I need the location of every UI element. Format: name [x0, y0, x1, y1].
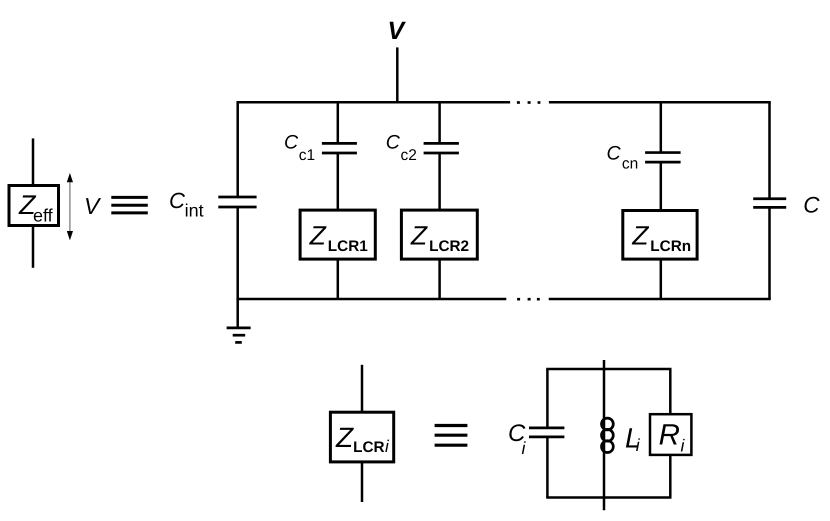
wire LCR tank bottom rail [546, 496, 671, 499]
wire branch1 above C_c1 [337, 102, 340, 143]
voltage arrow V (double headed) [67, 173, 73, 241]
wire Z_eff top lead [32, 138, 35, 185]
wire branch-n C_cn to Z_LCRn [660, 162, 663, 210]
junction dots bottom rail (ellipsis) [517, 298, 520, 301]
equivalence symbol bottom [435, 426, 468, 446]
wire branch2 C_c2 to Z_LCR2 [438, 153, 441, 210]
svg-text:cn: cn [622, 156, 638, 173]
svg-text:LCR1: LCR1 [328, 238, 368, 255]
wire tank right branch below R_i [669, 455, 672, 498]
wire tank left branch below C_i [546, 437, 549, 498]
svg-text:Z: Z [335, 422, 354, 453]
svg-text:R: R [659, 419, 680, 452]
capacitor C plates [753, 199, 786, 208]
junction dots top rail (ellipsis) [517, 101, 540, 300]
svg-text:eff: eff [33, 206, 54, 226]
svg-text:i: i [385, 437, 390, 456]
wire branch-n above C_cn [660, 102, 663, 152]
svg-text:i: i [522, 438, 527, 458]
impedance box Z_LCR1 [300, 210, 375, 259]
wire right branch below C [768, 207, 771, 299]
svg-text:Z: Z [631, 220, 649, 250]
svg-text:C: C [169, 188, 185, 213]
wire ground stem [236, 299, 239, 328]
svg-text:C: C [284, 132, 299, 154]
wire tank right branch above R_i [669, 369, 672, 414]
svg-text:Z: Z [309, 220, 327, 250]
svg-text:LCR2: LCR2 [429, 238, 469, 255]
wire LCR tank top rail [546, 368, 671, 371]
equivalence symbol left [111, 197, 148, 213]
capacitor C_i plates [529, 428, 564, 437]
wire left branch above C_int [236, 102, 239, 197]
wire branch-n below Z_LCRn [660, 259, 663, 299]
wire Z_LCRi top lead [361, 365, 364, 412]
svg-text:C: C [386, 132, 401, 154]
wire Z_eff bottom lead [32, 226, 35, 268]
svg-text:LCRn: LCRn [650, 238, 691, 255]
wire tank center through lead [603, 360, 606, 510]
wire tank left branch above C_i [546, 369, 549, 428]
svg-text:c1: c1 [299, 147, 315, 164]
ground symbol [227, 328, 251, 343]
svg-text:C: C [803, 193, 820, 218]
inductor L_i coil [602, 418, 614, 452]
svg-text:int: int [185, 201, 204, 221]
capacitor C_int plates [218, 197, 256, 207]
capacitor C_c1 plates [322, 143, 357, 153]
wire bottom rail right segment [549, 298, 771, 301]
impedance box Z_LCRi [330, 412, 393, 462]
resistor box R_i [650, 414, 691, 455]
svg-text:V: V [388, 17, 407, 45]
svg-text:C: C [607, 142, 622, 164]
svg-text:i: i [681, 435, 686, 455]
wire branch1 C_c1 to Z_LCR1 [337, 153, 340, 210]
svg-text:c2: c2 [401, 147, 417, 164]
impedance box Z_LCR2 [401, 210, 477, 259]
impedance box Z_LCRn [623, 211, 697, 260]
wire top rail right segment [549, 101, 771, 104]
wire Z_LCRi bottom lead [361, 462, 364, 502]
wire left branch below C_int [236, 207, 239, 299]
capacitor C_cn plates [645, 153, 681, 163]
capacitor C_c2 plates [424, 143, 459, 153]
wire branch2 below Z_LCR2 [438, 259, 441, 299]
svg-text:LCR: LCR [353, 439, 384, 456]
wire top rail left segment [236, 101, 510, 104]
wire right branch above C [768, 102, 771, 198]
impedance box Z_eff [9, 186, 59, 226]
wire bottom rail left segment [236, 298, 506, 301]
wire V terminal [396, 47, 399, 102]
wire branch1 below Z_LCR1 [337, 259, 340, 299]
svg-text:Z: Z [410, 220, 428, 250]
wire branch2 above C_c2 [438, 102, 441, 143]
svg-text:V: V [84, 193, 102, 219]
